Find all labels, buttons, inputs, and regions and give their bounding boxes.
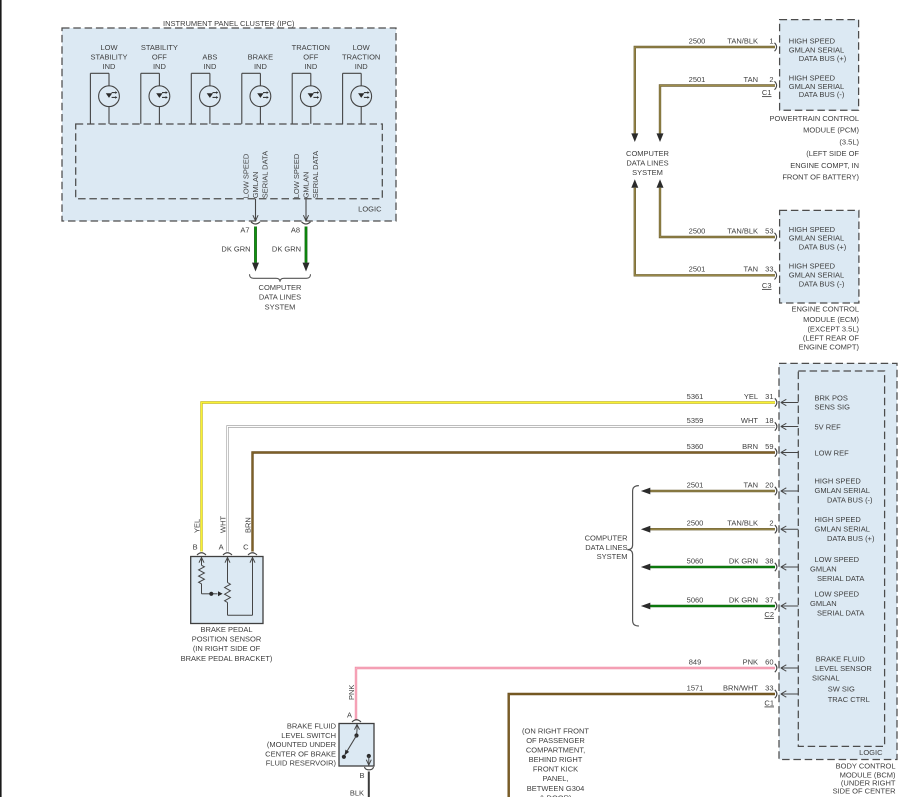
svg-text:C: C — [243, 543, 249, 552]
svg-text:COMPUTER: COMPUTER — [585, 533, 629, 542]
svg-text:ENGINE CONTROL: ENGINE CONTROL — [791, 304, 859, 313]
svg-text:A: A — [347, 711, 352, 720]
svg-text:LEVEL SWITCH: LEVEL SWITCH — [281, 731, 336, 740]
svg-text:2500: 2500 — [689, 36, 706, 45]
svg-text:OFF: OFF — [152, 52, 167, 61]
svg-text:GMLAN SERIAL: GMLAN SERIAL — [815, 486, 870, 495]
svg-text:59: 59 — [765, 442, 773, 451]
svg-text:(ON RIGHT FRONT: (ON RIGHT FRONT — [522, 727, 589, 736]
svg-text:DK GRN: DK GRN — [729, 595, 758, 604]
svg-text:WHT: WHT — [741, 416, 758, 425]
svg-text:TRAC CTRL: TRAC CTRL — [828, 695, 870, 704]
svg-text:IND: IND — [153, 62, 167, 71]
svg-text:2500: 2500 — [689, 226, 706, 235]
svg-text:IND: IND — [203, 62, 217, 71]
svg-text:SERIAL DATA: SERIAL DATA — [817, 609, 864, 618]
svg-text:BLK: BLK — [350, 789, 364, 797]
svg-text:2501: 2501 — [689, 265, 706, 274]
svg-text:TRACTION: TRACTION — [342, 52, 380, 61]
svg-text:(EXCEPT 3.5L): (EXCEPT 3.5L) — [807, 325, 859, 334]
svg-text:HIGH SPEED: HIGH SPEED — [815, 477, 862, 486]
svg-text:(3.5L): (3.5L) — [839, 138, 859, 147]
svg-text:A: A — [219, 543, 224, 552]
svg-text:DATA BUS (+): DATA BUS (+) — [827, 534, 875, 543]
svg-text:BRAKE FLUID: BRAKE FLUID — [816, 655, 866, 664]
svg-text:DATA LINES: DATA LINES — [626, 159, 668, 168]
svg-text:C3: C3 — [762, 281, 772, 290]
svg-text:YEL: YEL — [193, 519, 202, 533]
svg-text:BEHIND RIGHT: BEHIND RIGHT — [529, 755, 583, 764]
svg-text:5V REF: 5V REF — [815, 422, 842, 431]
svg-text:POSITION SENSOR: POSITION SENSOR — [192, 635, 262, 644]
svg-text:BRN/WHT: BRN/WHT — [723, 683, 758, 692]
svg-text:LOGIC: LOGIC — [859, 748, 883, 757]
svg-text:SIGNAL: SIGNAL — [812, 674, 840, 683]
svg-text:DATA BUS (-): DATA BUS (-) — [799, 279, 845, 288]
svg-text:LOW: LOW — [353, 43, 371, 52]
svg-text:FRONT OF BATTERY): FRONT OF BATTERY) — [782, 173, 859, 182]
svg-text:(MOUNTED UNDER: (MOUNTED UNDER — [267, 740, 337, 749]
svg-text:C1: C1 — [764, 699, 774, 708]
svg-text:DATA BUS (-): DATA BUS (-) — [799, 90, 845, 99]
svg-text:DK GRN: DK GRN — [729, 556, 758, 565]
svg-text:MODULE (ECM): MODULE (ECM) — [803, 315, 859, 324]
svg-text:COMPUTER: COMPUTER — [259, 283, 303, 292]
svg-text:FLUID RESERVOIR): FLUID RESERVOIR) — [266, 758, 337, 767]
svg-text:2501: 2501 — [687, 480, 704, 489]
svg-text:LOW SPEED: LOW SPEED — [242, 153, 251, 198]
svg-text:(IN RIGHT SIDE OF: (IN RIGHT SIDE OF — [193, 644, 261, 653]
svg-text:B: B — [359, 771, 364, 780]
svg-text:BETWEEN G304: BETWEEN G304 — [527, 784, 585, 793]
svg-text:SYSTEM: SYSTEM — [632, 168, 663, 177]
svg-text:HIGH SPEED: HIGH SPEED — [815, 515, 862, 524]
svg-text:2500: 2500 — [687, 519, 704, 528]
svg-text:33: 33 — [765, 683, 773, 692]
svg-text:GMLAN: GMLAN — [810, 599, 837, 608]
svg-text:CENTER OF BRAKE: CENTER OF BRAKE — [265, 749, 336, 758]
svg-text:DATA BUS (+): DATA BUS (+) — [799, 54, 847, 63]
svg-text:GMLAN: GMLAN — [302, 172, 311, 199]
svg-text:INSTRUMENT PANEL CLUSTER (IPC): INSTRUMENT PANEL CLUSTER (IPC) — [163, 19, 295, 28]
svg-text:TAN/BLK: TAN/BLK — [727, 36, 758, 45]
svg-text:LOGIC: LOGIC — [358, 204, 382, 213]
svg-text:DATA LINES: DATA LINES — [259, 293, 301, 302]
svg-text:C1: C1 — [762, 88, 772, 97]
svg-text:PNK: PNK — [347, 685, 356, 700]
svg-text:TAN/BLK: TAN/BLK — [727, 519, 758, 528]
svg-text:5060: 5060 — [687, 556, 704, 565]
svg-text:IND: IND — [355, 62, 369, 71]
svg-text:(LEFT REAR OF: (LEFT REAR OF — [803, 334, 860, 343]
svg-text:COMPARTMENT,: COMPARTMENT, — [526, 746, 585, 755]
svg-text:IND: IND — [304, 62, 318, 71]
svg-text:A8: A8 — [291, 226, 300, 235]
svg-text:ABS: ABS — [202, 52, 217, 61]
svg-text:1: 1 — [769, 36, 773, 45]
svg-text:DATA BUS (+): DATA BUS (+) — [799, 242, 847, 251]
svg-text:ENGINE COMPT, IN: ENGINE COMPT, IN — [790, 161, 859, 170]
svg-text:& DOOR): & DOOR) — [539, 793, 572, 797]
svg-text:A7: A7 — [240, 226, 249, 235]
svg-text:SERIAL DATA: SERIAL DATA — [311, 151, 320, 198]
svg-text:33: 33 — [765, 265, 773, 274]
svg-text:2501: 2501 — [689, 75, 706, 84]
svg-text:5360: 5360 — [687, 442, 704, 451]
svg-text:GMLAN SERIAL: GMLAN SERIAL — [789, 270, 844, 279]
svg-text:PANEL,: PANEL, — [542, 774, 568, 783]
svg-text:IND: IND — [103, 62, 117, 71]
svg-text:BRAKE PEDAL BRACKET): BRAKE PEDAL BRACKET) — [181, 654, 273, 663]
svg-text:5361: 5361 — [687, 392, 704, 401]
svg-text:SENS SIG: SENS SIG — [815, 403, 851, 412]
svg-text:IND: IND — [254, 62, 268, 71]
svg-text:1571: 1571 — [687, 683, 704, 692]
svg-text:BRN: BRN — [742, 442, 758, 451]
svg-text:HIGH SPEED: HIGH SPEED — [789, 261, 836, 270]
svg-text:OFF: OFF — [303, 52, 318, 61]
svg-text:DATA LINES: DATA LINES — [585, 543, 627, 552]
svg-text:849: 849 — [689, 657, 702, 666]
svg-text:DATA BUS (-): DATA BUS (-) — [827, 496, 873, 505]
svg-text:LOW: LOW — [100, 43, 118, 52]
svg-text:BRK POS: BRK POS — [815, 394, 848, 403]
svg-text:53: 53 — [765, 226, 773, 235]
svg-text:SYSTEM: SYSTEM — [597, 552, 628, 561]
svg-text:COMPUTER: COMPUTER — [626, 149, 670, 158]
svg-text:GMLAN: GMLAN — [251, 172, 260, 199]
svg-text:SERIAL DATA: SERIAL DATA — [817, 574, 864, 583]
svg-text:BRAKE PEDAL: BRAKE PEDAL — [200, 625, 252, 634]
svg-text:STABILITY: STABILITY — [141, 43, 178, 52]
svg-text:20: 20 — [765, 480, 773, 489]
svg-text:OF PASSENGER: OF PASSENGER — [526, 736, 585, 745]
svg-text:LOW REF: LOW REF — [815, 449, 850, 458]
svg-text:LOW SPEED: LOW SPEED — [815, 590, 860, 599]
svg-text:TAN: TAN — [744, 265, 758, 274]
svg-text:SW SIG: SW SIG — [828, 685, 855, 694]
svg-text:GMLAN SERIAL: GMLAN SERIAL — [815, 524, 870, 533]
svg-text:FRONT KICK: FRONT KICK — [533, 765, 578, 774]
svg-text:PNK: PNK — [743, 657, 758, 666]
svg-text:2: 2 — [769, 75, 773, 84]
svg-text:C2: C2 — [764, 610, 774, 619]
svg-text:TAN/BLK: TAN/BLK — [727, 226, 758, 235]
svg-text:TRACTION: TRACTION — [292, 43, 330, 52]
svg-text:37: 37 — [765, 595, 773, 604]
svg-text:BRAKE: BRAKE — [248, 52, 273, 61]
svg-text:LOW SPEED: LOW SPEED — [292, 153, 301, 198]
svg-text:GMLAN: GMLAN — [810, 565, 837, 574]
svg-text:(LEFT SIDE OF: (LEFT SIDE OF — [806, 149, 859, 158]
svg-text:TAN: TAN — [744, 480, 758, 489]
svg-text:B: B — [193, 543, 198, 552]
svg-text:SIDE OF CENTER: SIDE OF CENTER — [833, 787, 897, 796]
svg-text:SYSTEM: SYSTEM — [265, 302, 296, 311]
svg-text:5060: 5060 — [687, 595, 704, 604]
svg-text:POWERTRAIN CONTROL: POWERTRAIN CONTROL — [770, 114, 859, 123]
svg-text:MODULE (PCM): MODULE (PCM) — [803, 126, 859, 135]
svg-text:TAN: TAN — [744, 75, 758, 84]
svg-text:2: 2 — [769, 519, 773, 528]
svg-text:ENGINE COMPT): ENGINE COMPT) — [799, 343, 860, 352]
svg-text:WHT: WHT — [219, 516, 228, 533]
svg-text:SERIAL DATA: SERIAL DATA — [261, 151, 270, 198]
svg-text:DK GRN: DK GRN — [272, 245, 301, 254]
svg-text:STABILITY: STABILITY — [91, 52, 128, 61]
svg-text:YEL: YEL — [744, 392, 758, 401]
svg-text:31: 31 — [765, 392, 773, 401]
svg-text:18: 18 — [765, 416, 773, 425]
svg-text:60: 60 — [765, 657, 773, 666]
svg-text:5359: 5359 — [687, 416, 704, 425]
svg-text:LOW SPEED: LOW SPEED — [815, 555, 860, 564]
svg-text:38: 38 — [765, 556, 773, 565]
svg-text:BODY CONTROL: BODY CONTROL — [836, 762, 896, 771]
svg-text:LEVEL SENSOR: LEVEL SENSOR — [815, 664, 872, 673]
svg-text:BRAKE FLUID: BRAKE FLUID — [287, 722, 337, 731]
svg-text:BRN: BRN — [244, 517, 253, 533]
svg-text:DK GRN: DK GRN — [221, 245, 250, 254]
